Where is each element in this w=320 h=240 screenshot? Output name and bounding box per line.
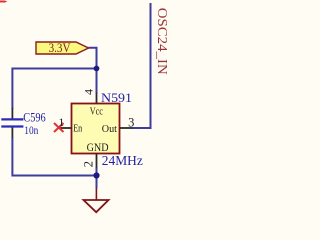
- svg-text:Out: Out: [102, 124, 117, 135]
- svg-text:10n: 10n: [24, 125, 38, 137]
- svg-text:En: En: [73, 123, 83, 134]
- svg-text:4: 4: [82, 89, 96, 95]
- svg-text:OSC24_IN: OSC24_IN: [155, 8, 170, 75]
- svg-text:Vcc: Vcc: [90, 106, 103, 117]
- svg-text:24MHz: 24MHz: [102, 153, 143, 168]
- svg-text:1: 1: [58, 115, 64, 129]
- svg-text:C596: C596: [23, 111, 46, 125]
- svg-text:2: 2: [81, 161, 95, 167]
- svg-text:3: 3: [128, 116, 134, 130]
- svg-text:3.3V: 3.3V: [49, 41, 71, 55]
- svg-text:GND: GND: [87, 142, 109, 154]
- svg-text:N591: N591: [101, 90, 132, 105]
